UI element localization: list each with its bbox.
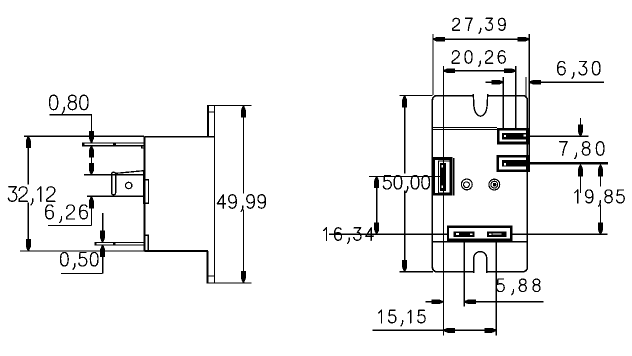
left view: bottom blade terminal 0.5mm	[95, 242, 144, 246]
dim 49,99 text	[217, 195, 265, 212]
right view: bottom terminal block	[448, 227, 511, 240]
dim 0,50 text	[61, 253, 98, 270]
left view: body front edge	[143, 137, 145, 251]
left view: middle terminal hole circle	[126, 182, 132, 188]
dim 15,15 dimension line and arrows	[373, 328, 497, 333]
left view: top blade terminal 0.8mm	[82, 142, 143, 148]
dim 50,00 dimension line and arrows	[402, 96, 407, 272]
right view: bottom mounting notch	[474, 252, 487, 274]
dim 5,88 extension line	[463, 241, 465, 307]
dim 32,12 text	[8, 187, 55, 205]
right view: body top double line	[433, 127, 498, 129]
left view: middle terminal box with 6,26 extension lines	[84, 171, 144, 196]
dim 16,34 text	[324, 228, 374, 244]
dim 27,39 text	[453, 18, 505, 33]
dim 20,26 text	[452, 51, 505, 67]
left view: flange corner tick bottom	[208, 275, 215, 277]
dim 7,80 extension line A	[529, 135, 589, 137]
dim 16,34 dimension line and arrows	[374, 176, 379, 234]
dim 27,39 dimension line and arrows	[433, 37, 529, 42]
left view: middle terminal boss	[144, 180, 149, 203]
dim 0,80 text	[50, 95, 88, 113]
dim 7,80 and 19,85 thick extension line B	[526, 162, 608, 164]
left view: mounting flange left edge bottom segment	[206, 251, 208, 283]
dim 0,80 leader	[49, 115, 91, 132]
left view: flange top edge with 49,99 top extension line	[207, 104, 251, 106]
dim 7,80 text	[560, 142, 604, 159]
dim 16,34 extension line terminal centre	[369, 175, 440, 177]
left view: flange right edge	[214, 105, 216, 283]
left view: middle terminal top flap line	[115, 171, 144, 174]
dim 32,12 extension line top	[24, 135, 144, 137]
dim 50,00 text	[383, 176, 429, 193]
right view: rivet circle left	[461, 179, 472, 190]
dim 19,85 dimension arrows	[598, 165, 603, 235]
right view: top mounting notch	[473, 94, 487, 116]
dim 0,50 leader underline	[61, 272, 103, 274]
right view: body bottom edge	[433, 241, 528, 243]
dim 5,88 dimension line and arrows	[426, 299, 544, 304]
dim 20,26 dimension line and arrows	[443, 68, 515, 73]
right view: left vertical terminal	[434, 158, 454, 196]
dim 0,50 arrows	[100, 213, 105, 273]
dim 6,26 arrows	[89, 163, 94, 226]
dim 6,30 dimension line and arrows	[486, 80, 605, 85]
right view: bottom right terminal	[498, 156, 527, 170]
dim 15,15 text	[379, 310, 426, 326]
left view: middle terminal front cap	[112, 172, 116, 194]
dim 6,26 leader underline	[48, 225, 92, 227]
dim 6,30 extension lines	[503, 77, 526, 128]
left view: flange bottom edge with 49,99 bottom extension line	[206, 282, 251, 284]
dim 50,00 extension lines	[400, 96, 434, 272]
dim 32,12 dimension line and arrows	[26, 136, 31, 251]
dim 6,26 text	[46, 205, 88, 223]
dim 6,30 text	[558, 61, 600, 78]
right view: flange outline rounded rect	[432, 96, 527, 272]
dim 32,12 extension line bottom	[20, 250, 144, 252]
dim 7,80 dimension arrows	[578, 118, 583, 193]
left view: flange corner tick top	[208, 111, 215, 113]
left view: body top edge	[144, 136, 214, 138]
dim 0,80 arrows	[89, 131, 94, 163]
right view: rivet circle right	[489, 179, 500, 190]
dim 19,85 text	[575, 190, 624, 206]
right view: top right terminal	[498, 129, 527, 143]
left view: body bottom edge	[144, 250, 208, 252]
dim 15,15 extension line	[495, 241, 497, 336]
left view: bottom blade boss	[144, 235, 148, 251]
dim 16,34 and 19,85 common extension line	[329, 233, 608, 235]
dim 27,39 extension lines	[433, 34, 529, 172]
dim 49,99 dimension line and arrows	[241, 106, 246, 283]
dim 20,26 extension lines	[443, 66, 515, 336]
dim 5,88 text	[497, 279, 540, 295]
left view: mounting flange left edge top segment	[207, 105, 209, 137]
